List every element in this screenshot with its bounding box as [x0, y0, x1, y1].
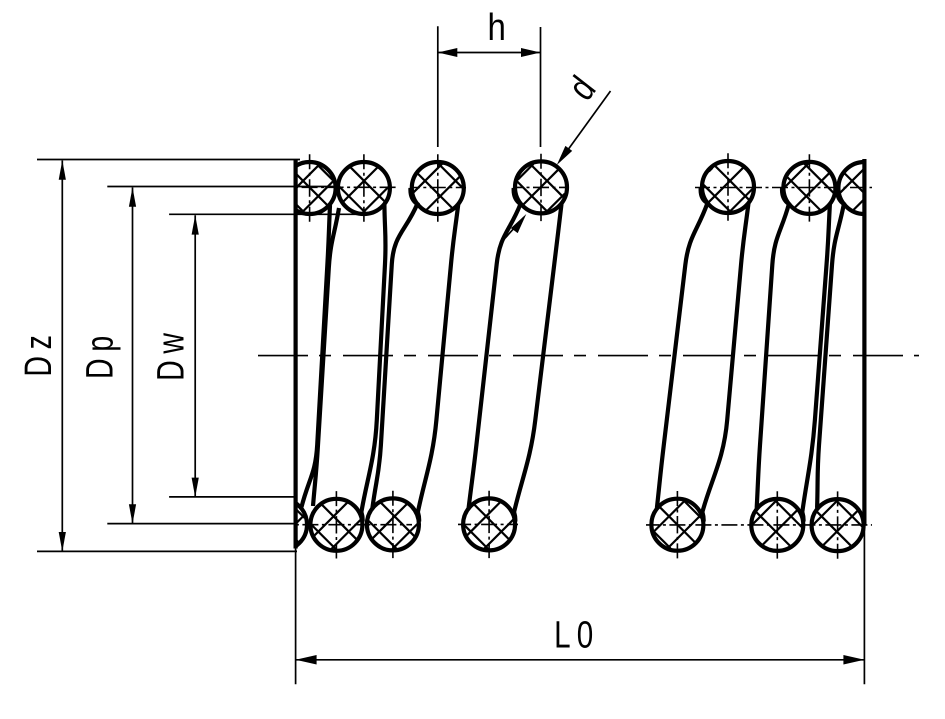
svg-text:Dz: Dz [18, 328, 60, 376]
svg-text:Dp: Dp [80, 329, 122, 379]
svg-text:L0: L0 [554, 614, 599, 656]
svg-text:Dw: Dw [151, 326, 193, 381]
svg-text:h: h [488, 6, 506, 49]
